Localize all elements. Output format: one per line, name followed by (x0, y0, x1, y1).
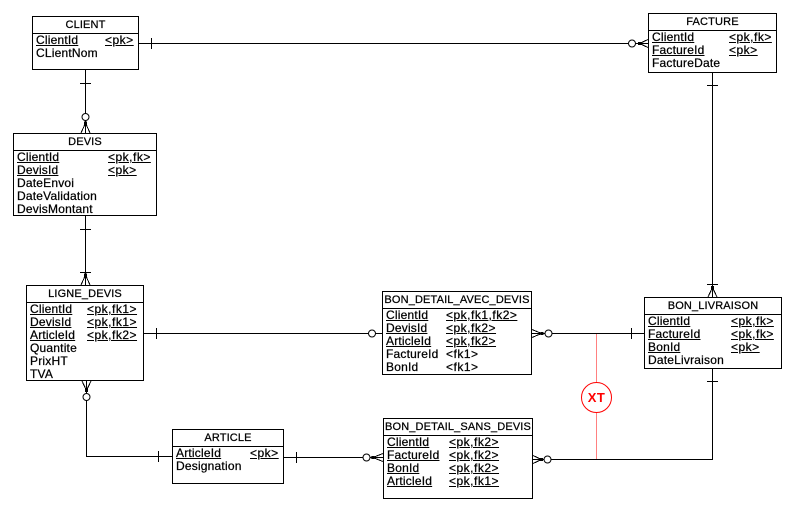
junction dot BON_DETAIL_SANS_DEVIS left (371, 456, 374, 459)
crow's foot from LIGNE_DEVIS bottom (82, 381, 91, 391)
tick many LIGNE_DEVIS side (80, 272, 91, 274)
table ARTICLE (172, 429, 284, 484)
tick one BON_LIVRAISON bottom side (707, 381, 718, 383)
tick one ARTICLE side right (296, 452, 298, 463)
wire DEVIS-LIGNE_DEVIS (85, 216, 87, 285)
junction dot DEVIS side (84, 122, 87, 125)
crow's foot into BON_LIVRAISON top (708, 288, 717, 298)
tick one CLIENT side vertical (80, 83, 91, 85)
junction dot BON_DETAIL_AVEC_DEVIS right (541, 332, 544, 335)
crow's foot into LIGNE_DEVIS top (81, 275, 90, 285)
wire LIGNE_DEVIS-ARTICLE elbow (87, 381, 173, 457)
wire CLIENT-DEVIS (85, 69, 87, 123)
crow's foot into BON_DETAIL_SANS_DEVIS left (373, 454, 383, 462)
wire ARTICLE-BON_DETAIL_SANS_DEVIS (284, 457, 383, 459)
tick one ARTICLE side (158, 451, 160, 462)
wire FACTURE-BON_LIVRAISON (712, 73, 714, 297)
circle zero BON_DETAIL_SANS_DEVIS left (363, 454, 370, 461)
table CLIENT (32, 16, 139, 70)
junction dot LIGNE_DEVIS top (84, 274, 87, 277)
tick one FACTURE side (707, 85, 718, 87)
circle zero DEVIS side (82, 114, 89, 121)
crow's foot into BON_DETAIL_SANS_DEVIS right (533, 456, 542, 464)
wire BON_DETAIL_AVEC_DEVIS-BON_LIVRAISON (532, 333, 644, 335)
table BON_LIVRAISON (644, 297, 782, 369)
circle zero BON_DETAIL_AVEC_DEVIS right (545, 330, 552, 337)
exclusion constraint red vertical line (596, 334, 598, 459)
table LIGNE_DEVIS (26, 285, 144, 381)
tick one LIGNE_DEVIS side (156, 328, 158, 339)
table BON_DETAIL_AVEC_DEVIS (382, 291, 532, 375)
table BON_DETAIL_SANS_DEVIS (383, 418, 533, 499)
crow's foot into FACTURE (640, 40, 649, 48)
junction dot BON_DETAIL_SANS_DEVIS right (540, 458, 543, 461)
circle zero BON_DETAIL_SANS_DEVIS right (544, 456, 551, 463)
table FACTURE (648, 13, 777, 73)
crow's foot into BON_DETAIL_AVEC_DEVIS right (532, 330, 542, 338)
junction dot FACTURE side (638, 42, 641, 45)
circle zero-one BON_DETAIL_AVEC_DEVIS left (369, 330, 376, 337)
junction dot BON_LIVRAISON top (711, 286, 714, 289)
exclusion circle XT (582, 383, 612, 413)
table DEVIS (13, 133, 157, 216)
svg-text:XT: XT (588, 390, 606, 405)
wire CLIENT-FACTURE (139, 43, 648, 45)
wire LIGNE_DEVIS-BON_DETAIL_AVEC_DEVIS (144, 333, 382, 335)
circle zero FACTURE side (629, 40, 636, 47)
tick one CLIENT side (151, 38, 153, 49)
tick many BON_LIVRAISON side (707, 284, 718, 286)
tick one BON_LIVRAISON side (631, 328, 633, 339)
crow's foot into DEVIS (81, 123, 90, 133)
circle zero LIGNE_DEVIS bottom (83, 394, 90, 401)
junction dot LIGNE_DEVIS bottom (85, 389, 88, 392)
tick one DEVIS side (80, 229, 91, 231)
wire BON_LIVRAISON-BON_DETAIL_SANS_DEVIS elbow (533, 368, 713, 460)
